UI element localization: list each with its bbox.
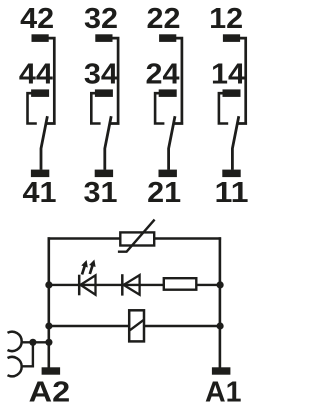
wire terminal 42 to NC fixed contact <box>45 38 56 123</box>
junction left rail / socket branch <box>45 339 52 346</box>
terminal 14 <box>223 89 241 97</box>
terminal 21 <box>159 170 177 178</box>
terminal 31 <box>95 170 113 178</box>
svg-text:12: 12 <box>209 3 243 35</box>
wire terminal 34 to NO fixed contact <box>91 93 100 123</box>
terminal label 14 <box>211 58 245 90</box>
terminal 12 <box>223 34 240 42</box>
relay coil K1 <box>129 310 144 341</box>
terminal label 42 <box>20 3 54 35</box>
terminal 11 <box>222 170 240 178</box>
wire terminal 12 to NC fixed contact <box>237 38 248 123</box>
terminal 41 <box>31 170 49 178</box>
socket contact upper <box>8 332 22 351</box>
terminal label 32 <box>84 3 118 35</box>
wire coil branch <box>48 325 222 327</box>
wire terminal 14 to NO fixed contact <box>219 93 228 123</box>
terminal 24 <box>159 89 177 97</box>
svg-text:34: 34 <box>84 58 118 90</box>
movable contact arm pole 2 <box>105 116 111 170</box>
movable contact arm pole 4 <box>232 116 238 170</box>
terminal label 31 <box>84 177 118 209</box>
junction left rail / coil branch <box>45 322 52 329</box>
wire terminal 22 to NC fixed contact <box>173 38 184 123</box>
wire branch down to lower socket contact <box>21 341 34 366</box>
wire top rail left segment <box>48 237 121 239</box>
movable contact arm pole 1 <box>41 116 47 170</box>
svg-text:14: 14 <box>211 58 245 90</box>
junction socket branch <box>29 339 36 346</box>
terminal label 41 <box>23 177 57 209</box>
junction left rail / middle branch <box>45 281 52 288</box>
svg-text:44: 44 <box>19 58 53 90</box>
wire terminal 44 to NO fixed contact <box>28 93 37 123</box>
socket contact lower <box>8 357 22 376</box>
wire middle branch (LED/diode/resistor row) <box>48 284 222 286</box>
wire right rail (A1 rail) <box>219 237 222 367</box>
svg-text:31: 31 <box>84 177 118 209</box>
terminal A1 <box>212 367 231 374</box>
junction right rail / coil branch <box>217 322 224 329</box>
terminal label 22 <box>147 3 181 35</box>
resistor <box>164 278 197 290</box>
terminal A2 <box>42 367 61 374</box>
LED <box>79 260 95 296</box>
terminal label 12 <box>209 3 243 35</box>
varistor <box>118 220 155 252</box>
terminal 32 <box>95 34 112 42</box>
svg-text:11: 11 <box>215 177 249 209</box>
svg-text:A1: A1 <box>205 376 242 408</box>
terminal 44 <box>31 89 49 97</box>
wire upper socket contact to left rail <box>21 341 50 343</box>
svg-text:A2: A2 <box>29 376 71 408</box>
terminal label 34 <box>84 58 118 90</box>
movable contact arm pole 3 <box>169 116 175 170</box>
svg-text:21: 21 <box>147 177 181 209</box>
svg-text:41: 41 <box>23 177 57 209</box>
svg-text:22: 22 <box>147 3 181 35</box>
svg-text:42: 42 <box>20 3 54 35</box>
terminal label A1 <box>205 376 242 408</box>
terminal 34 <box>95 89 113 97</box>
diode <box>122 274 139 295</box>
terminal label 11 <box>215 177 249 209</box>
terminal label 44 <box>19 58 53 90</box>
wire terminal 32 to NC fixed contact <box>109 38 120 123</box>
svg-text:32: 32 <box>84 3 118 35</box>
wire left rail (A2 rail) <box>47 237 50 367</box>
terminal label 21 <box>147 177 181 209</box>
terminal 22 <box>159 34 176 42</box>
wire terminal 24 to NO fixed contact <box>155 93 164 123</box>
terminal 42 <box>32 34 49 42</box>
junction right rail / middle branch <box>217 281 224 288</box>
terminal label 24 <box>146 58 180 90</box>
wire top rail right segment <box>154 237 221 239</box>
terminal label A2 <box>29 376 71 408</box>
svg-text:24: 24 <box>146 58 180 90</box>
